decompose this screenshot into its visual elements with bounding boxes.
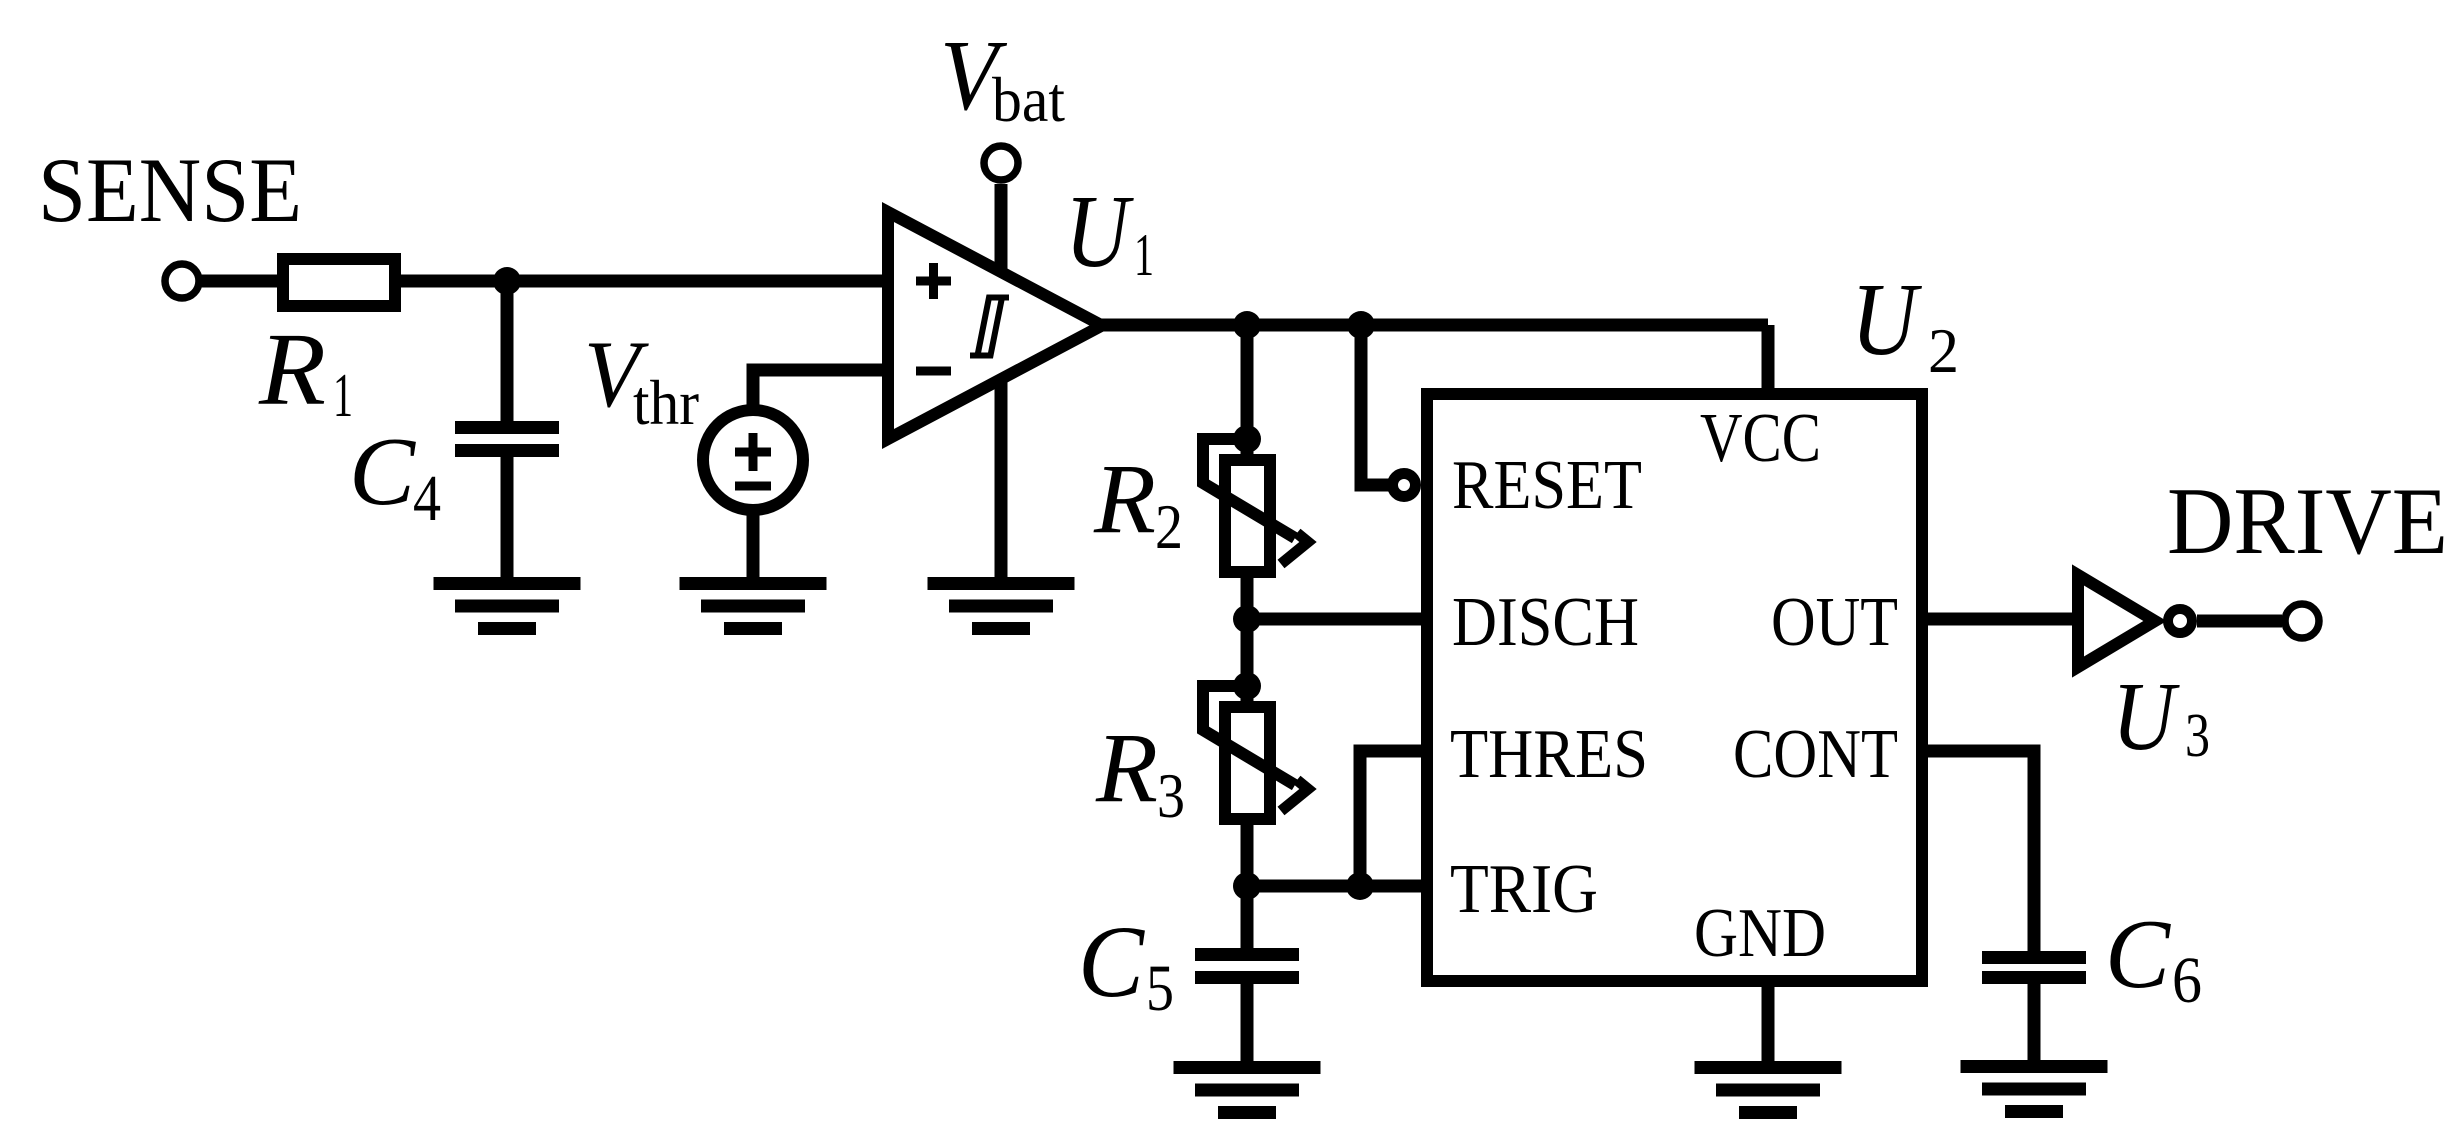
node junction above C4 [493, 267, 521, 295]
wire THRES: left and down to TRIG [1360, 751, 1427, 886]
wire R1 to op-amp + input [395, 275, 888, 288]
wire Vthr source to ground [747, 508, 760, 579]
Vbat terminal [984, 146, 1018, 180]
wire SENSE terminal to R1 [200, 275, 283, 288]
wire RESET: down and right to bubble [1361, 325, 1390, 485]
resistor R1 [283, 259, 395, 306]
wire OUT to U3 [1922, 613, 2078, 626]
svg-text:2: 2 [1155, 491, 1183, 562]
ground under U2 GND [1695, 1061, 1842, 1119]
voltage source Vthr [703, 410, 803, 510]
wire C4 bottom [501, 457, 514, 579]
label U2 [1851, 262, 1959, 386]
svg-text:6: 6 [2172, 944, 2202, 1017]
svg-text:U: U [1065, 174, 1134, 289]
label Vbat [940, 19, 1065, 135]
node junction TRIG left [1233, 872, 1261, 900]
U3 inverter bubble [2168, 609, 2192, 633]
ground under op-amp [928, 577, 1075, 635]
wire TRIG [1247, 880, 1427, 893]
svg-text:thr: thr [633, 368, 699, 438]
svg-text:THRES: THRES [1450, 716, 1648, 793]
IC U2 box [1427, 394, 1922, 981]
svg-text:C: C [1078, 905, 1145, 1019]
svg-text:CONT: CONT [1733, 716, 1898, 793]
node junction TRIG right [1346, 872, 1374, 900]
RESET active-low bubble [1393, 474, 1416, 497]
wire C5 bottom [1241, 984, 1254, 1063]
op-amp minus marker [916, 367, 951, 376]
label U3 [2112, 663, 2210, 771]
svg-text:2: 2 [1928, 315, 1959, 386]
svg-text:C: C [349, 418, 416, 525]
label R1 [258, 312, 353, 430]
label R3 [1095, 712, 1185, 831]
svg-text:4: 4 [413, 462, 441, 535]
label U1 [1065, 174, 1154, 289]
label R2 [1093, 443, 1183, 562]
ground under Vthr [680, 577, 827, 635]
capacitor C4 [455, 421, 559, 457]
SENSE terminal [165, 264, 199, 298]
svg-text:R: R [258, 312, 326, 427]
wire rail to R2 [1241, 325, 1254, 462]
svg-text:R: R [1093, 443, 1156, 554]
resistor R2 (adjustable) [1225, 460, 1270, 572]
label C5 [1078, 905, 1174, 1025]
ground under C6 [1961, 1060, 2108, 1118]
svg-text:TRIG: TRIG [1450, 851, 1598, 928]
buffer U3 [2078, 575, 2155, 667]
label C4 [349, 418, 441, 535]
R2 adjustment arrow [1203, 439, 1308, 564]
wire GND pin [1762, 981, 1775, 1063]
wire U3 to DRIVE terminal [2197, 615, 2282, 628]
svg-text:3: 3 [1157, 760, 1185, 831]
wire C6 bottom [2028, 984, 2041, 1062]
ground under C4 [434, 577, 581, 635]
capacitor C6 [1982, 951, 2086, 984]
resistor R3 (adjustable) [1225, 707, 1270, 819]
DRIVE terminal [2285, 604, 2319, 638]
op-amp schmitt symbol [970, 298, 1009, 356]
wire R3 top terminal [1241, 619, 1254, 709]
svg-text:U: U [2112, 663, 2181, 771]
svg-text:DRIVE: DRIVE [2167, 468, 2448, 574]
node junction R3 top [1233, 672, 1261, 700]
capacitor C5 [1195, 948, 1299, 984]
label Vthr [584, 321, 699, 438]
wire CONT to C6 [1922, 751, 2034, 953]
wire R3 bottom to TRIG node [1241, 817, 1254, 886]
label C6 [2105, 900, 2202, 1017]
wire C4 top [501, 281, 514, 423]
svg-text:1: 1 [1134, 222, 1154, 288]
wire C5 top [1241, 886, 1254, 950]
svg-text:GND: GND [1694, 895, 1826, 972]
node junction on rail above RESET [1347, 311, 1375, 339]
wire DISCH [1247, 613, 1427, 626]
node junction R2 top [1233, 425, 1261, 453]
svg-text:bat: bat [992, 65, 1065, 135]
svg-text:U: U [1851, 262, 1922, 377]
R3 adjustment arrow [1203, 686, 1308, 811]
svg-text:C: C [2105, 900, 2171, 1009]
ground under C5 [1174, 1061, 1321, 1119]
svg-text:VCC: VCC [1700, 400, 1821, 477]
svg-text:OUT: OUT [1771, 584, 1898, 661]
svg-text:3: 3 [2185, 702, 2210, 770]
node junction DISCH [1233, 605, 1261, 633]
svg-text:R: R [1095, 712, 1158, 823]
wire Vbat power rail through op-amp to ground [995, 184, 1008, 579]
node junction on rail above R2 [1233, 311, 1261, 339]
wire Vthr source to op-amp minus input [753, 370, 888, 412]
wire op-amp output rail [1100, 319, 1768, 332]
svg-text:SENSE: SENSE [38, 139, 302, 241]
svg-text:RESET: RESET [1452, 447, 1642, 524]
svg-text:DISCH: DISCH [1452, 584, 1639, 661]
op-amp U1 [888, 212, 1102, 439]
wire VCC drop [1762, 325, 1775, 394]
op-amp plus marker [916, 263, 951, 299]
svg-text:5: 5 [1146, 952, 1174, 1025]
wire R2 bottom to DISCH node [1241, 570, 1254, 686]
